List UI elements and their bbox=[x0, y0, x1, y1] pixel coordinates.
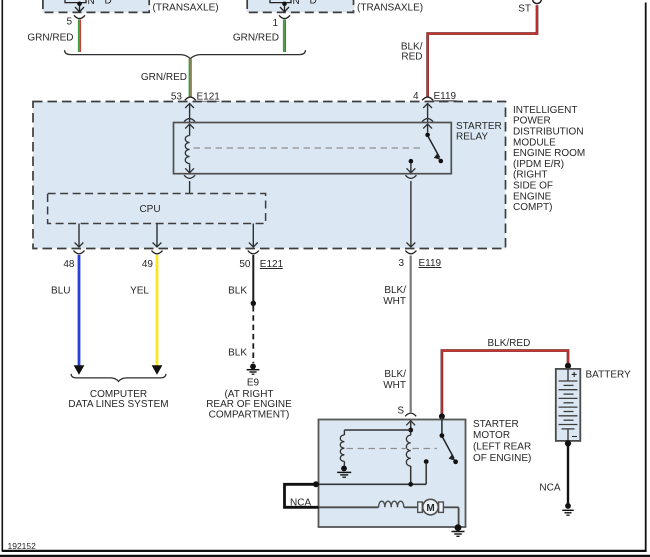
svg-text:SIDE OF: SIDE OF bbox=[513, 181, 553, 192]
junction (BLK splice) bbox=[251, 301, 256, 306]
CPU box bbox=[48, 194, 266, 224]
svg-text:(TRANSAXLE): (TRANSAXLE) bbox=[357, 3, 423, 14]
wire (box 1 internal, down arrow) bbox=[75, 5, 84, 12]
wire (S terminal into solenoid) bbox=[406, 421, 415, 431]
connector E119 pin 4 bbox=[413, 91, 457, 102]
label starter relay bbox=[456, 121, 502, 143]
svg-text:CPU: CPU bbox=[139, 204, 160, 215]
motor M1 (starter motor armature) bbox=[418, 499, 444, 515]
wire GRN/RED (pin 5) bbox=[27, 20, 80, 53]
svg-text:MOTOR: MOTOR bbox=[473, 430, 510, 441]
wire (solenoid common rail) bbox=[316, 483, 426, 485]
label computer data lines system bbox=[68, 389, 168, 410]
junction dot (box 2 internal) bbox=[282, 2, 287, 7]
component box (park/neutral position switch, transaxle) left bbox=[42, 0, 150, 12]
wire (CPU to pin 48) bbox=[75, 224, 84, 248]
IPDM E/R module box bbox=[33, 102, 506, 249]
wire (E121 pin 53 to relay coil) bbox=[184, 103, 195, 123]
wire (battery feed to solenoid switch) bbox=[441, 417, 443, 434]
connector E121 pin 53 bbox=[171, 92, 220, 103]
connector (relay switch out) bbox=[405, 175, 416, 178]
svg-text:(RIGHT: (RIGHT bbox=[513, 170, 547, 181]
relay switch bbox=[423, 124, 443, 163]
label battery bbox=[586, 370, 632, 381]
wire NCA loop (no connector available) bbox=[285, 484, 319, 508]
svg-text:–: – bbox=[572, 431, 578, 442]
svg-text:COMPARTMENT): COMPARTMENT) bbox=[209, 410, 290, 421]
svg-text:RED: RED bbox=[401, 52, 422, 63]
relay K1 (starter relay) box bbox=[174, 123, 452, 174]
wire BLK/WHT (pin 3 to starter S) bbox=[383, 256, 410, 413]
svg-text:GRN/RED: GRN/RED bbox=[141, 72, 187, 83]
svg-text:REAR OF ENGINE: REAR OF ENGINE bbox=[206, 399, 292, 410]
terminal S (starter motor) bbox=[397, 406, 416, 417]
svg-text:1: 1 bbox=[272, 18, 278, 29]
junction (battery feed at starter box) bbox=[439, 413, 445, 419]
wire GRN/RED (pin 1) bbox=[233, 20, 286, 53]
svg-text:49: 49 bbox=[142, 259, 154, 270]
svg-text:(TRANSAXLE): (TRANSAXLE) bbox=[153, 3, 219, 14]
svg-text:5: 5 bbox=[66, 17, 72, 28]
svg-text:50: 50 bbox=[239, 259, 251, 270]
junction dot (box 1 internal) bbox=[77, 2, 82, 7]
solenoid switch bbox=[440, 433, 459, 464]
svg-text:COMPUTER: COMPUTER bbox=[90, 389, 147, 400]
svg-text:3: 3 bbox=[398, 258, 404, 269]
wire (relay to E119 pin 3) bbox=[407, 181, 416, 247]
junction (S branch) bbox=[408, 428, 413, 433]
wire (CPU to pin 49) bbox=[153, 224, 162, 248]
svg-text:BLK: BLK bbox=[228, 286, 247, 297]
svg-text:BLK: BLK bbox=[228, 348, 247, 359]
svg-text:M: M bbox=[426, 503, 434, 514]
brace (wire merge) bbox=[65, 50, 306, 59]
junction (battery positive terminal) bbox=[565, 363, 571, 369]
svg-text:INTELLIGENT: INTELLIGENT bbox=[513, 105, 577, 116]
relay coil bbox=[185, 124, 194, 173]
ground (battery) bbox=[562, 503, 573, 515]
connector (relay coil out) bbox=[184, 175, 195, 193]
component box (park/neutral position switch, transaxle) right bbox=[247, 0, 355, 12]
brace (computer data lines) bbox=[71, 374, 166, 382]
connector pin 1 bbox=[272, 15, 290, 29]
svg-text:BLK/RED: BLK/RED bbox=[488, 338, 531, 349]
wire BLK/RED (battery to starter) bbox=[442, 338, 568, 415]
svg-text:GRN/RED: GRN/RED bbox=[27, 33, 73, 44]
relay mechanical link (dashed) bbox=[194, 147, 425, 149]
svg-text:POWER: POWER bbox=[513, 116, 551, 127]
wire (battery negative, NCA) bbox=[539, 444, 568, 504]
wire (box 2 internal, down arrow) bbox=[280, 5, 289, 12]
svg-text:ST: ST bbox=[518, 4, 531, 15]
connector pin 5 bbox=[66, 15, 85, 27]
page frame left bbox=[1, 0, 3, 552]
relay switch contact (to pin 3) bbox=[407, 159, 416, 173]
connector E121 pin 50 bbox=[239, 251, 283, 270]
wire (CPU to pin 50) bbox=[249, 224, 258, 248]
svg-text:(LEFT REAR: (LEFT REAR bbox=[473, 442, 531, 453]
page frame bottom outer bbox=[0, 555, 650, 557]
svg-text:BLK/: BLK/ bbox=[384, 285, 406, 296]
junction (rail / NCA loop) bbox=[313, 481, 319, 487]
page frame bottom bbox=[2, 550, 647, 552]
svg-text:NCA: NCA bbox=[539, 483, 560, 494]
label starter motor bbox=[473, 419, 531, 464]
svg-text:STARTER: STARTER bbox=[456, 121, 502, 132]
svg-text:COMPT): COMPT) bbox=[513, 202, 552, 213]
svg-text:STARTER: STARTER bbox=[473, 419, 519, 430]
svg-text:N: N bbox=[293, 0, 300, 7]
svg-text:E9: E9 bbox=[247, 378, 260, 389]
label (TRANSAXLE) right bbox=[357, 3, 423, 14]
page frame right bbox=[645, 3, 647, 552]
ground E9 bbox=[247, 364, 260, 389]
svg-text:ENGINE ROOM: ENGINE ROOM bbox=[513, 148, 585, 159]
svg-text:BLU: BLU bbox=[51, 286, 70, 297]
svg-text:MODULE: MODULE bbox=[513, 137, 556, 148]
wire (E119 pin 4 to relay switch) bbox=[422, 103, 433, 123]
svg-text:N: N bbox=[88, 0, 95, 7]
svg-text:S: S bbox=[397, 406, 404, 417]
wire (motor to case ground) bbox=[443, 507, 458, 527]
connector E119 pin 3 bbox=[398, 251, 441, 269]
svg-text:ENGINE: ENGINE bbox=[513, 191, 552, 202]
ground (starter case) bbox=[452, 524, 465, 536]
svg-text:OF ENGINE): OF ENGINE) bbox=[473, 453, 531, 464]
svg-text:D: D bbox=[105, 0, 112, 7]
wire (to motor armature) bbox=[319, 506, 379, 508]
svg-text:WHT: WHT bbox=[383, 380, 406, 391]
wire (branch to hold-in coil) bbox=[344, 429, 410, 431]
svg-text:(IPDM E/R): (IPDM E/R) bbox=[513, 159, 564, 170]
svg-text:E119: E119 bbox=[434, 91, 457, 102]
starter motor box bbox=[319, 420, 466, 528]
solenoid mechanical link (dashed) bbox=[347, 448, 438, 450]
wire GRN/RED (merged, to E121 pin 53) bbox=[141, 59, 191, 97]
node ST (ignition switch) bbox=[518, 0, 541, 15]
svg-text:BATTERY: BATTERY bbox=[586, 370, 632, 381]
wire BLK (pin 50) bbox=[228, 255, 253, 303]
ground (hold-in coil) bbox=[337, 466, 351, 478]
solenoid switch contact bbox=[424, 459, 429, 484]
label E9 location bbox=[206, 389, 292, 421]
wire BLK/RED (from ST to E119 pin 4) bbox=[401, 5, 537, 96]
svg-text:GRN/RED: GRN/RED bbox=[233, 33, 279, 44]
solenoid hold-in coil bbox=[340, 430, 344, 466]
junction (battery negative terminal) bbox=[565, 440, 571, 446]
label diagram number bbox=[8, 541, 37, 551]
junction (rail / pull-in coil) bbox=[408, 482, 413, 487]
connector E121 pin 49 bbox=[142, 251, 163, 270]
svg-text:WHT: WHT bbox=[383, 296, 406, 307]
motor field winding bbox=[379, 501, 418, 507]
svg-text:D: D bbox=[310, 0, 317, 7]
svg-text:4: 4 bbox=[413, 91, 419, 102]
svg-text:(AT RIGHT: (AT RIGHT bbox=[224, 389, 273, 400]
svg-text:NCA: NCA bbox=[290, 498, 311, 509]
solenoid pull-in coil bbox=[406, 432, 410, 484]
svg-text:BLK/: BLK/ bbox=[384, 369, 406, 380]
svg-text:YEL: YEL bbox=[130, 286, 149, 297]
svg-text:192152: 192152 bbox=[8, 541, 37, 551]
label IPDM E/R bbox=[513, 105, 585, 213]
label (TRANSAXLE) left bbox=[153, 3, 219, 14]
svg-text:DISTRIBUTION: DISTRIBUTION bbox=[513, 127, 584, 138]
connector E121 pin 48 bbox=[63, 251, 84, 270]
wire BLU (pin 48 to data line) bbox=[51, 255, 84, 375]
svg-text:DATA LINES SYSTEM: DATA LINES SYSTEM bbox=[68, 399, 168, 410]
wire BLK (dashed to E9) bbox=[228, 306, 253, 363]
svg-text:48: 48 bbox=[63, 259, 75, 270]
wire YEL (pin 49 to data line) bbox=[130, 255, 162, 375]
svg-text:+: + bbox=[571, 370, 577, 381]
svg-text:RELAY: RELAY bbox=[456, 132, 488, 143]
battery BAT1 bbox=[556, 369, 581, 442]
